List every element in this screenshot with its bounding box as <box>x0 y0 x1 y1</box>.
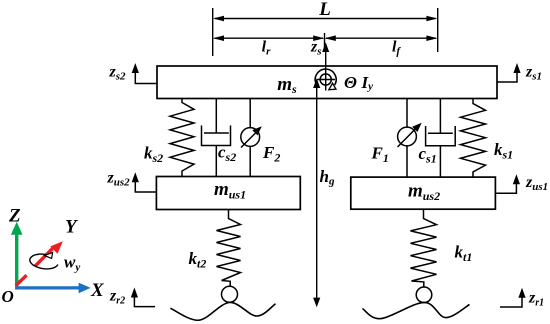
axis Z (green) <box>15 233 18 290</box>
svg-text:Y: Y <box>65 217 79 238</box>
dimension line L <box>215 18 436 20</box>
actuator F2 arrow <box>241 131 258 148</box>
axis Y (red) main segment <box>35 249 53 267</box>
dimension tick right <box>437 8 439 52</box>
sprung mass beam ms <box>157 66 497 99</box>
svg-text:kt2: kt2 <box>189 249 207 271</box>
actuator F1 arrow <box>398 127 418 147</box>
road wave left <box>170 302 275 320</box>
hg dimension line <box>316 84 318 299</box>
svg-text:zus2: zus2 <box>107 170 131 189</box>
tire spring kt2 <box>217 210 241 287</box>
axis X (blue) <box>16 286 80 289</box>
road wave right <box>362 302 469 318</box>
damper cs1 piston <box>428 132 453 134</box>
unsprung mass mus1 <box>156 177 300 210</box>
svg-text:zus1: zus1 <box>525 174 548 193</box>
wheel circle right <box>416 287 432 303</box>
zus2 indicator <box>135 176 156 192</box>
svg-text:X: X <box>90 280 105 301</box>
svg-text:F1: F1 <box>371 144 389 166</box>
damper cs2 lower rod <box>215 146 217 177</box>
zs arrow <box>325 46 327 91</box>
tire spring kt1 <box>411 209 437 287</box>
svg-text:zs1: zs1 <box>525 64 542 83</box>
dimension line lf <box>326 37 436 39</box>
spring ks2 <box>170 99 194 177</box>
zus1 indicator <box>495 178 516 193</box>
zr1 indicator <box>500 292 522 308</box>
actuator F2 circle <box>241 128 260 147</box>
svg-text:zs: zs <box>310 39 322 58</box>
svg-text:kt1: kt1 <box>455 243 473 265</box>
svg-text:F2: F2 <box>262 143 280 165</box>
actuator F1 link <box>406 99 408 178</box>
svg-text:L: L <box>318 0 331 20</box>
damper cs2 cup <box>202 126 231 146</box>
svg-text:ks2: ks2 <box>144 144 163 166</box>
zs1 indicator <box>497 67 517 83</box>
svg-text:Z: Z <box>8 206 21 227</box>
actuator F2 link <box>249 99 251 177</box>
damper cs1 rod <box>439 99 441 134</box>
dimension tick center <box>324 33 326 51</box>
CG pitch rotation arc <box>315 69 336 85</box>
svg-text:zr1: zr1 <box>528 290 544 309</box>
damper cs2 piston <box>204 132 229 134</box>
svg-text:cs1: cs1 <box>419 144 437 166</box>
damper cs1 cup <box>426 126 456 146</box>
wy rotation arc <box>30 254 58 269</box>
svg-text:wy: wy <box>64 253 80 274</box>
zs2 indicator <box>135 67 157 84</box>
dimension line lr <box>215 37 324 39</box>
zr2 indicator <box>134 291 155 307</box>
svg-text:zs2: zs2 <box>109 64 127 83</box>
dimension tick left <box>212 8 214 56</box>
svg-text:zr2: zr2 <box>109 288 125 307</box>
actuator F1 circle <box>398 127 417 146</box>
pitch arc arrowhead (open) <box>329 83 336 90</box>
axis Y (red) lower segment <box>16 275 27 285</box>
svg-text:lr: lr <box>262 39 271 58</box>
svg-text:O: O <box>2 287 14 306</box>
damper cs1 lower rod <box>439 146 441 177</box>
CG symbol crosshair <box>325 67 327 91</box>
wheel circle left <box>222 286 238 302</box>
svg-text:hg: hg <box>320 167 335 188</box>
damper cs2 rod <box>215 99 217 134</box>
svg-text:lf: lf <box>392 39 401 58</box>
svg-text:ks1: ks1 <box>494 140 513 162</box>
spring ks1 <box>461 99 486 178</box>
wy arc arrowhead (open) <box>45 252 53 258</box>
unsprung mass mus2 <box>351 177 496 209</box>
